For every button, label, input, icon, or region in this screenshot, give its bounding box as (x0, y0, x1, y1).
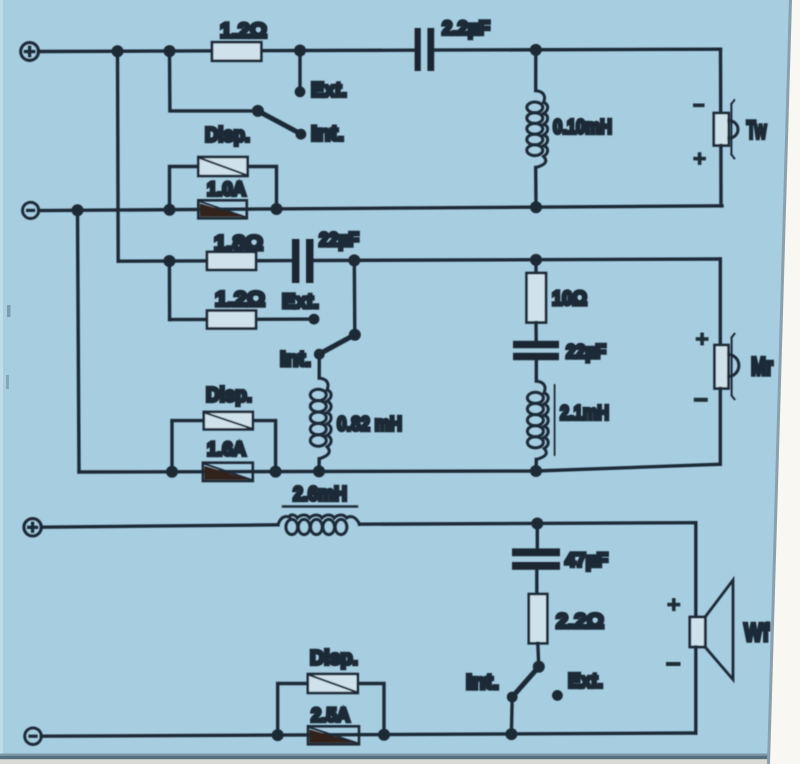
terminal plus (top input) (21, 43, 39, 61)
resistor R 1.2 ohm (mid) (207, 311, 256, 329)
svg-text:2.2Ω: 2.2Ω (556, 609, 604, 633)
fuse F 1.0A (198, 200, 247, 218)
wire mid row 1.8 (118, 259, 720, 261)
page speck 1 (7, 305, 11, 317)
svg-text:0.82 mH: 0.82 mH (337, 413, 402, 436)
terminal plus (woofer input) (24, 519, 41, 536)
wire R2.2 to switch (538, 643, 539, 667)
switch S3 blade (512, 667, 539, 697)
node Ext contact (top) (295, 86, 306, 97)
switch S1 pivot (252, 105, 264, 117)
node junction v1 top (72, 204, 84, 216)
fuse F 2.5A (308, 726, 359, 744)
speaker Wf minus sign (666, 662, 681, 666)
svg-text:Int.: Int. (466, 670, 499, 694)
wire woofer positive rail (41, 523, 696, 528)
inductor L 2.1mH (527, 381, 548, 460)
wire negative rail (tweeter) (39, 206, 722, 211)
speaker Mr minus sign (694, 398, 708, 402)
wire C22 to coil 2.1 (535, 360, 538, 381)
wire ext stub (top) (298, 51, 301, 92)
wire 47uF top lead (536, 524, 539, 549)
speaker Wf (woofer) (690, 580, 733, 680)
node junction v2 top (112, 45, 124, 57)
inductor L 2.6mH core bar (283, 505, 357, 507)
capacitor C 2.2uF (415, 28, 435, 71)
svg-text:Disp.: Disp. (310, 648, 358, 670)
wire Int to bottom rail (510, 697, 514, 734)
wire switch stub (mid) (353, 260, 357, 334)
svg-text:Disp.: Disp. (205, 125, 250, 147)
node junction 1.2 branch (163, 255, 175, 267)
wire coil 2.1 bottom lead (534, 460, 538, 471)
wire 47uF to R2.2 (535, 570, 538, 594)
wire 1.2 row (170, 317, 314, 321)
node junction lamp right (woofer) (378, 729, 390, 741)
wire Wf top lead (694, 523, 697, 617)
resistor R 10 ohm (527, 273, 547, 323)
svg-text:Disp.: Disp. (206, 385, 252, 407)
speaker Mr (midrange) (715, 334, 739, 399)
svg-text:10Ω: 10Ω (552, 288, 587, 310)
lamp Disp (woofer) (278, 674, 384, 735)
svg-text:1.0A: 1.0A (207, 179, 246, 201)
svg-text:1.2Ω: 1.2Ω (220, 19, 267, 43)
node junction 2.1 bottom (530, 465, 542, 477)
svg-text:Tw: Tw (747, 117, 767, 145)
wire mid bottom rail (79, 464, 720, 472)
wire 10ohm top lead (534, 260, 537, 273)
capacitor C 22uF (mid row) (292, 239, 314, 283)
lamp Disp (top) (170, 157, 277, 210)
svg-text:0.10mH: 0.10mH (553, 116, 612, 139)
node junction inductor top (530, 44, 542, 56)
lamp Disp (mid) (172, 412, 276, 472)
inductor L 2.1mH core bar (554, 385, 556, 455)
inductor L 0.82mH (310, 378, 331, 459)
svg-text:22µF: 22µF (319, 230, 359, 251)
svg-text:2.2µF: 2.2µF (442, 18, 490, 40)
svg-text:Ext.: Ext. (568, 670, 603, 693)
svg-text:Wf: Wf (744, 619, 770, 647)
svg-text:47µF: 47µF (565, 550, 608, 572)
node Ext contact (woofer) (552, 690, 563, 701)
speaker Tw minus sign (693, 104, 705, 108)
wire v2 vertical (plus feed to mid) (116, 51, 120, 261)
wire inductor top lead (534, 50, 537, 91)
svg-text:2.1mH: 2.1mH (560, 402, 609, 425)
svg-text:1.8Ω: 1.8Ω (214, 231, 263, 255)
svg-text:Int.: Int. (311, 122, 344, 146)
node junction after C22 (348, 254, 360, 266)
svg-text:Int.: Int. (280, 347, 311, 371)
wire 10ohm to C22 (534, 323, 538, 341)
svg-text:1.6A: 1.6A (207, 439, 246, 461)
wire Wf bottom lead (694, 647, 697, 733)
fuse F 1.6A (203, 463, 253, 481)
node junction lamp left (top) (164, 204, 176, 216)
node junction mid column top (530, 254, 542, 266)
inductor L 2.6mH (278, 515, 360, 535)
speaker Tw plus sign (693, 152, 706, 165)
wire 1.2 branch vertical (168, 261, 172, 320)
svg-text:2.6mH: 2.6mH (293, 484, 347, 506)
node junction lamp left (mid) (166, 466, 178, 478)
switch S3 pivot (533, 661, 545, 673)
svg-text:2.5A: 2.5A (311, 705, 350, 727)
node Int contact (top) (296, 129, 307, 140)
node junction switch feed (164, 45, 176, 57)
wire v1 vertical (minus feed to mid) (78, 211, 80, 472)
switch S1 blade (258, 111, 301, 134)
inductor L 0.10mH (527, 91, 548, 168)
svg-text:Ext.: Ext. (311, 79, 347, 102)
wire tweeter bottom lead (719, 146, 722, 206)
node junction lamp left (woofer) (272, 729, 284, 741)
node Ext contact (mid) (309, 314, 320, 325)
page speck 2 (6, 375, 9, 389)
switch S2 blade (319, 335, 355, 354)
page right edge (769, 0, 800, 764)
node junction inductor bottom (530, 201, 542, 213)
speaker Mr plus sign (696, 333, 709, 346)
wire top positive rail (39, 49, 721, 51)
node Int contact (mid) (314, 349, 325, 360)
node junction lamp right (mid) (270, 466, 282, 478)
wire Mr bottom lead (719, 389, 722, 465)
capacitor C 47uF (512, 548, 560, 569)
terminal minus (woofer input) (25, 728, 42, 745)
node junction after R1.2 (294, 45, 306, 57)
svg-text:Ext.: Ext. (282, 290, 319, 313)
resistor R 2.2 ohm (529, 594, 548, 643)
wire tweeter right drop (719, 49, 723, 113)
switch S2 pivot (349, 329, 361, 341)
capacitor C 22uF (Mr branch) (513, 341, 559, 360)
wire inductor bottom lead (534, 168, 538, 208)
node junction 0.82 bottom (313, 465, 325, 477)
node junction 47uF top (531, 518, 543, 530)
wire switch feed (top) (170, 51, 258, 111)
wire Mr top lead (719, 259, 722, 345)
terminal minus (top input) (23, 202, 39, 218)
svg-text:Mr: Mr (751, 353, 773, 381)
node Int contact (woofer) (507, 692, 518, 703)
wire coil 0.82 bottom lead (317, 459, 321, 471)
speaker Tw (tweeter) (714, 100, 738, 158)
resistor R 1.8 ohm (207, 252, 256, 270)
speaker Wf plus sign (667, 598, 680, 611)
node junction lamp right (top) (271, 203, 283, 215)
svg-text:1.2Ω: 1.2Ω (215, 287, 265, 311)
svg-text:22µF: 22µF (566, 342, 606, 363)
resistor R 1.2 ohm (top) (212, 42, 261, 61)
node junction Int bottom (505, 728, 517, 740)
page bottom edge (0, 754, 800, 756)
wire to coil 0.82 (318, 354, 321, 378)
wire woofer negative rail (41, 733, 696, 736)
